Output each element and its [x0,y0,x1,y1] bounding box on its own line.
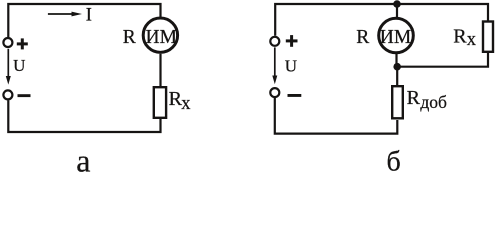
plus sign circuit a [17,38,28,49]
label Rdob circuit b [407,87,447,112]
junction node (bottom, circuit b) [393,63,401,71]
label Rx circuit a [169,88,192,114]
terminal (-) circuit b [270,88,279,97]
resistor Rx (circuit a) [154,87,166,118]
wire: circuit b, meter bottom lead to junction [395,53,397,66]
terminal (-) circuit a [3,90,12,99]
svg-text:I: I [86,6,92,26]
wire: circuit b, Rx bottom lead + horizontal to junction [397,53,488,67]
wire: circuit b, meter top lead [396,4,398,18]
wire: circuit b, Rdob top lead to junction [396,67,398,85]
meter IM (circuit a) [143,18,177,52]
svg-text:U: U [285,57,297,76]
svg-text:х: х [467,30,477,50]
svg-text:ИМ: ИМ [145,27,176,48]
plus sign circuit b [286,35,298,47]
current arrow I [48,12,82,17]
svg-text:ИМ: ИМ [380,27,411,48]
minus sign circuit b [288,94,302,97]
resistor Rdob (circuit b) [392,86,403,118]
resistor Rx (circuit b) [483,22,493,52]
meter IM (circuit b) [379,18,414,53]
wire: circuit b, left-bottom vertical + bottom horizontal + Rdob bottom lead [275,98,398,134]
label Rx circuit b [453,26,477,51]
wire: circuit a, left-bottom vertical + bottom horizontal + Rx bottom lead [8,100,160,132]
svg-text:R: R [123,27,136,48]
wire: circuit b, left-top vertical + top horizontal + Rx top lead [275,4,488,36]
junction node (top, circuit b) [393,0,401,8]
svg-text:R: R [407,87,421,109]
terminal (+) circuit b [270,37,279,46]
terminal (+) circuit a [3,38,12,47]
svg-text:R: R [453,26,467,48]
svg-text:U: U [13,56,25,75]
svg-text:доб: доб [420,92,447,112]
wire: circuit a, left-top vertical + top horizontal + meter top lead [8,4,160,37]
svg-text:б: б [387,147,401,178]
svg-text:а: а [76,142,90,178]
voltage arrow U, circuit b [272,47,277,84]
svg-text:х: х [181,94,191,114]
minus sign circuit a [18,94,31,97]
voltage arrow U, circuit a [6,49,11,85]
wire: circuit a, Rx to meter lead [159,54,161,86]
svg-text:R: R [356,27,369,48]
